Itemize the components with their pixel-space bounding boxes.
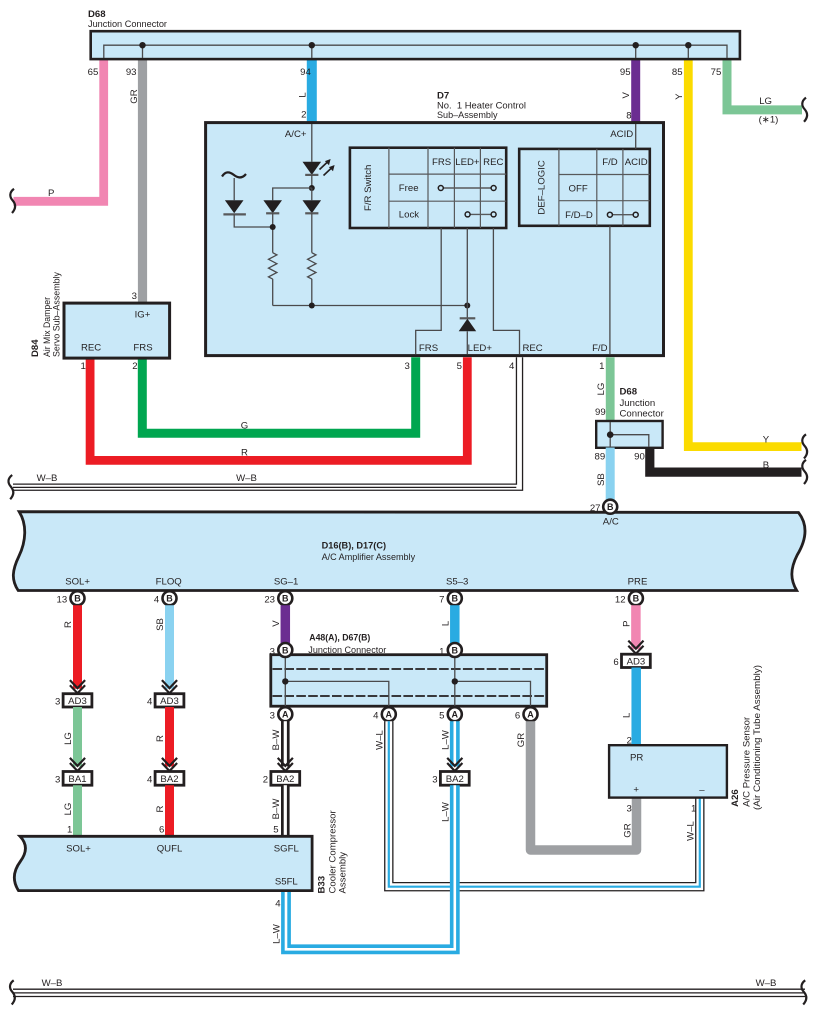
pin 1 (B) bbox=[448, 643, 462, 657]
svg-text:W–B: W–B bbox=[756, 978, 777, 989]
connector 2 BA2 bbox=[271, 772, 300, 786]
connector 27 (B) bbox=[603, 500, 617, 514]
diode D4 (left) bbox=[225, 200, 244, 213]
svg-text:4: 4 bbox=[275, 899, 281, 910]
svg-text:3: 3 bbox=[55, 775, 60, 786]
wire G (D7 pin 3 to D84 FRS) bbox=[142, 357, 415, 433]
junction dot bbox=[282, 678, 288, 684]
svg-text:85: 85 bbox=[672, 67, 683, 78]
continuation squiggle Y bbox=[802, 434, 807, 458]
A48 dashed line upper bbox=[273, 668, 546, 670]
pin 5 (A) bbox=[448, 707, 462, 721]
svg-text:REC: REC bbox=[483, 157, 503, 168]
svg-text:L–W: L–W bbox=[440, 801, 451, 822]
svg-text:5: 5 bbox=[273, 824, 278, 835]
connector 4 AD3 bbox=[155, 694, 184, 707]
svg-text:A/C Amplifier Assembly: A/C Amplifier Assembly bbox=[322, 552, 416, 563]
A48 dashed line lower bbox=[273, 695, 546, 697]
connector 3 AD3 bbox=[63, 694, 92, 707]
resistor R1 bbox=[269, 253, 277, 279]
svg-text:13: 13 bbox=[57, 595, 68, 606]
svg-text:OFF: OFF bbox=[569, 183, 588, 194]
svg-text:Sub–Assembly: Sub–Assembly bbox=[437, 110, 498, 121]
svg-text:L: L bbox=[440, 620, 451, 626]
continuation squiggle bottom right bbox=[801, 980, 806, 1004]
svg-text:B: B bbox=[607, 502, 614, 512]
svg-text:F/R Switch: F/R Switch bbox=[363, 165, 374, 211]
svg-text:F/D–D: F/D–D bbox=[565, 210, 593, 221]
svg-text:1: 1 bbox=[67, 824, 72, 835]
internal wire ACID pin 8 to table bbox=[635, 124, 637, 149]
PR pressure sensor box bbox=[609, 745, 727, 797]
svg-text:A: A bbox=[282, 710, 289, 720]
continuation squiggle LG bbox=[802, 98, 807, 122]
svg-text:AD3: AD3 bbox=[68, 696, 87, 707]
arrow to 2 BA2 bbox=[278, 758, 293, 771]
svg-text:(Air Conditioning Tube Assembl: (Air Conditioning Tube Assembly) bbox=[752, 665, 763, 810]
connector 4 BA2 bbox=[155, 772, 184, 786]
svg-text:6: 6 bbox=[159, 824, 164, 835]
wire W-B from D7 pin 4 to ground bus bbox=[13, 357, 520, 487]
wire D4 to node bbox=[234, 214, 273, 227]
svg-text:95: 95 bbox=[620, 67, 631, 78]
wire W-L (4A down right and up to PR pin 1) bbox=[389, 721, 700, 887]
svg-text:A: A bbox=[386, 710, 393, 720]
diode D3 (middle) bbox=[263, 200, 282, 213]
wire wave to diode D4 bbox=[233, 178, 235, 200]
wire GR (6A down right and up to PR pin 3) bbox=[531, 721, 637, 850]
svg-text:B: B bbox=[282, 645, 289, 655]
wire D3 to node bbox=[272, 213, 274, 252]
svg-text:27: 27 bbox=[590, 503, 601, 514]
arrow to AD3 bbox=[70, 680, 85, 693]
wire P (pin 65 to left edge) bbox=[14, 58, 104, 201]
svg-text:R: R bbox=[155, 735, 166, 742]
wire LED to node bbox=[311, 175, 313, 188]
svg-text:DEF–LOGIC: DEF–LOGIC bbox=[537, 160, 548, 214]
internal wire REC column to pin 4 bbox=[493, 228, 519, 354]
svg-text:LG: LG bbox=[63, 732, 74, 745]
svg-text:LED+: LED+ bbox=[468, 343, 493, 354]
svg-text:Connector: Connector bbox=[620, 409, 665, 420]
svg-text:SGFL: SGFL bbox=[274, 843, 300, 854]
svg-text:BA2: BA2 bbox=[446, 774, 464, 785]
svg-text:4: 4 bbox=[373, 711, 379, 722]
arrow to BA1 bbox=[70, 758, 85, 771]
svg-text:W–B: W–B bbox=[236, 473, 257, 484]
svg-text:QUFL: QUFL bbox=[157, 843, 183, 854]
svg-text:4: 4 bbox=[147, 697, 153, 708]
svg-text:S5FL: S5FL bbox=[275, 877, 299, 888]
svg-text:FRS: FRS bbox=[432, 157, 451, 168]
svg-text:6: 6 bbox=[515, 711, 520, 722]
svg-text:P: P bbox=[48, 188, 54, 199]
svg-text:SOL+: SOL+ bbox=[65, 577, 90, 588]
svg-text:P: P bbox=[621, 620, 632, 626]
svg-text:5: 5 bbox=[457, 361, 462, 372]
D68 pin stub wires bbox=[143, 45, 689, 58]
svg-text:7: 7 bbox=[439, 595, 444, 606]
internal wire FRS column to pin 3 bbox=[416, 228, 442, 354]
wave symbol bbox=[222, 172, 246, 177]
svg-text:B: B bbox=[633, 594, 640, 604]
junction dot bbox=[452, 678, 458, 684]
wire LG (BA1 to B33 SOL+) bbox=[73, 785, 82, 837]
continuation squiggle bottom left bbox=[10, 980, 15, 1004]
svg-text:D84: D84 bbox=[30, 339, 41, 357]
B33 cooler compressor assembly box bbox=[14, 836, 312, 890]
junction dot pin 93 bbox=[139, 42, 145, 48]
junction dot pin 85 bbox=[685, 42, 691, 48]
svg-text:1: 1 bbox=[439, 646, 444, 657]
svg-text:65: 65 bbox=[88, 67, 99, 78]
A/C amplifier assembly bar D16/D17 bbox=[13, 512, 805, 591]
wire P (PRE column) bbox=[631, 605, 641, 649]
svg-text:3: 3 bbox=[55, 697, 60, 708]
svg-text:–: – bbox=[699, 785, 705, 796]
internal wire F/D column to pin F/D bbox=[609, 226, 611, 354]
arrow to 6 AD3 bbox=[628, 641, 643, 654]
A48 internal wire 3B-3A/4A bbox=[285, 650, 389, 713]
svg-text:Lock: Lock bbox=[399, 209, 419, 220]
pin 7 (B) bbox=[448, 591, 462, 605]
svg-text:D68: D68 bbox=[620, 387, 638, 398]
svg-text:B–W: B–W bbox=[271, 729, 282, 751]
small D68 junction connector box bbox=[596, 421, 662, 448]
internal wire from pin 2 to LED bbox=[311, 124, 313, 162]
pin 6 (A) bbox=[524, 707, 538, 721]
svg-text:BA1: BA1 bbox=[68, 774, 86, 785]
svg-text:L: L bbox=[622, 712, 633, 718]
bottom ground bus W-B (three lines) bbox=[13, 989, 805, 996]
svg-text:B: B bbox=[166, 594, 173, 604]
DEF-LOGIC contact F/D-D row bbox=[610, 214, 636, 216]
D7 heater control box bbox=[206, 123, 664, 356]
connector 6 AD3 bbox=[622, 654, 651, 667]
svg-text:3: 3 bbox=[132, 291, 137, 302]
svg-text:AD3: AD3 bbox=[160, 696, 179, 707]
svg-text:1: 1 bbox=[81, 361, 86, 372]
svg-text:94: 94 bbox=[300, 67, 311, 78]
wire LG (AD3 to BA1) bbox=[73, 707, 82, 767]
svg-text:SB: SB bbox=[596, 473, 607, 486]
svg-text:3: 3 bbox=[626, 803, 631, 814]
wire R1 to bus bbox=[272, 279, 274, 306]
connector 3 BA2 bbox=[440, 772, 469, 786]
svg-text:Junction Connector: Junction Connector bbox=[88, 19, 168, 30]
svg-text:A/C+: A/C+ bbox=[285, 129, 307, 140]
wire V (pin 95 to D7 pin 8) bbox=[631, 58, 640, 124]
A48/D67 junction connector box bbox=[271, 655, 547, 707]
svg-text:B: B bbox=[282, 594, 289, 604]
svg-text:Y: Y bbox=[763, 435, 770, 446]
wire D2 to resistor R2 bbox=[311, 213, 313, 252]
svg-text:2: 2 bbox=[263, 775, 268, 786]
D68 internal wire bbox=[610, 422, 649, 447]
svg-text:B: B bbox=[452, 594, 459, 604]
LED D1 bbox=[303, 162, 322, 175]
svg-text:Junction Connector: Junction Connector bbox=[308, 645, 387, 656]
svg-text:GR: GR bbox=[623, 823, 634, 837]
svg-text:SOL+: SOL+ bbox=[66, 843, 91, 854]
svg-text:IG+: IG+ bbox=[135, 310, 151, 321]
wire L-W (3 BA2 down, left, up to B33 S5FL pin 4) bbox=[286, 785, 455, 949]
resistor R2 bbox=[308, 253, 316, 279]
W-B bus middle line bbox=[13, 486, 516, 488]
svg-text:+: + bbox=[633, 785, 639, 796]
svg-text:PRE: PRE bbox=[628, 577, 648, 588]
svg-text:R: R bbox=[241, 448, 248, 459]
svg-text:W–L: W–L bbox=[374, 729, 385, 749]
arrow to 3 BA2 bbox=[447, 758, 462, 771]
svg-text:LG: LG bbox=[63, 803, 74, 816]
svg-text:F/D: F/D bbox=[592, 343, 608, 354]
A48 internal wire 1B-5A/6A bbox=[455, 650, 531, 713]
arrow to BA2 bbox=[162, 758, 177, 771]
svg-text:2: 2 bbox=[132, 361, 137, 372]
svg-text:REC: REC bbox=[81, 343, 101, 354]
pin 3 (A) bbox=[278, 707, 292, 721]
svg-text:2: 2 bbox=[301, 110, 306, 121]
svg-text:89: 89 bbox=[595, 452, 606, 463]
svg-text:F/D: F/D bbox=[602, 157, 618, 168]
wire R (AD3 to BA2) bbox=[165, 707, 174, 767]
svg-text:Junction: Junction bbox=[620, 398, 656, 409]
pin 13 (B) bbox=[71, 591, 85, 605]
svg-text:A48(A), D67(B): A48(A), D67(B) bbox=[309, 632, 370, 643]
svg-text:3: 3 bbox=[404, 361, 409, 372]
svg-text:4: 4 bbox=[154, 595, 160, 606]
svg-text:23: 23 bbox=[264, 595, 275, 606]
svg-text:SG–1: SG–1 bbox=[274, 577, 299, 588]
svg-text:G: G bbox=[241, 420, 248, 431]
wire node to diode D3 branch bbox=[273, 188, 312, 200]
D84 servo box bbox=[64, 303, 170, 358]
junction node below LED bbox=[309, 185, 315, 191]
DEF-LOGIC table bbox=[519, 149, 650, 226]
svg-text:99: 99 bbox=[595, 407, 606, 418]
wire L-W (5A to 3 BA2) bbox=[450, 721, 460, 766]
svg-text:5: 5 bbox=[439, 711, 444, 722]
pin 23 (B) bbox=[278, 591, 292, 605]
svg-text:D7: D7 bbox=[437, 90, 449, 101]
svg-text:B33: B33 bbox=[317, 876, 328, 894]
svg-text:B: B bbox=[74, 594, 81, 604]
D68 internal junction dot bbox=[607, 431, 614, 438]
svg-text:W–B: W–B bbox=[42, 978, 63, 989]
D68 internal bus wire bbox=[104, 45, 727, 58]
continuation squiggle W-B left bbox=[8, 475, 13, 499]
svg-text:S5–3: S5–3 bbox=[446, 577, 468, 588]
svg-text:90: 90 bbox=[634, 452, 645, 463]
svg-text:ACID: ACID bbox=[625, 157, 648, 168]
svg-text:BA2: BA2 bbox=[276, 774, 294, 785]
svg-text:V: V bbox=[271, 620, 282, 627]
svg-text:FRS: FRS bbox=[419, 343, 438, 354]
svg-text:Servo Sub–Assembly: Servo Sub–Assembly bbox=[51, 272, 62, 357]
wire LG (D7 F/D pin 1 to D68 pin 99) bbox=[606, 357, 615, 422]
svg-text:75: 75 bbox=[711, 67, 722, 78]
svg-text:(∗1): (∗1) bbox=[759, 115, 779, 126]
svg-text:PR: PR bbox=[630, 752, 643, 763]
svg-text:R: R bbox=[155, 805, 166, 812]
svg-text:AD3: AD3 bbox=[627, 657, 646, 668]
svg-text:D16(B), D17(C): D16(B), D17(C) bbox=[322, 541, 387, 552]
wire L (S5-3 to A48 pin 1B) bbox=[450, 605, 460, 643]
wire B-W (BA2 to B33 SGFL) bbox=[281, 785, 290, 837]
wire GR (pin 93 to D84) bbox=[138, 58, 147, 304]
svg-text:FLOQ: FLOQ bbox=[156, 577, 182, 588]
diode D2 (below LED) bbox=[311, 188, 313, 200]
junction dot pin 95 bbox=[633, 42, 639, 48]
internal wire LED+ column to node bbox=[466, 228, 468, 306]
wire R2 to bus bbox=[311, 279, 313, 306]
svg-text:ACID: ACID bbox=[610, 129, 633, 140]
wire Y (pin 85 down and right to edge) bbox=[688, 58, 801, 447]
svg-text:A: A bbox=[527, 710, 534, 720]
svg-text:8: 8 bbox=[626, 110, 631, 121]
svg-text:3: 3 bbox=[270, 646, 275, 657]
svg-text:Y: Y bbox=[674, 93, 685, 100]
svg-text:FRS: FRS bbox=[133, 343, 152, 354]
svg-text:V: V bbox=[621, 92, 632, 99]
diode D5 (pointing up) bbox=[460, 317, 476, 319]
pin 4 (A) bbox=[382, 707, 396, 721]
wire V (SG-1 to A48 pin 3B) bbox=[281, 605, 291, 643]
svg-text:A26: A26 bbox=[730, 789, 741, 807]
junction dot pin 94 bbox=[309, 42, 315, 48]
junction node R2/bus bbox=[309, 303, 315, 309]
wire node to diode D5 bbox=[466, 306, 468, 319]
svg-text:L–W: L–W bbox=[440, 729, 451, 750]
F/R switch contact Lock LED+-REC bbox=[468, 213, 494, 215]
junction connector D68 bar bbox=[91, 31, 740, 59]
arrow to AD3 bbox=[162, 680, 177, 693]
wire R (D7 pin 5 to D84 REC) bbox=[90, 357, 467, 460]
wire L (AD3 to PR pin 2) bbox=[631, 668, 641, 747]
junction node bus/diode D5 bbox=[464, 303, 470, 309]
svg-text:12: 12 bbox=[615, 595, 626, 606]
svg-text:Assembly: Assembly bbox=[338, 852, 349, 894]
continuation squiggle B bbox=[802, 460, 807, 484]
F/R switch table bbox=[350, 148, 506, 228]
svg-text:BA2: BA2 bbox=[160, 774, 178, 785]
wire D5 to pin 5 bbox=[466, 331, 468, 354]
wire L (pin 94 to D7 pin 2) bbox=[307, 58, 317, 124]
svg-text:LG: LG bbox=[596, 383, 607, 396]
svg-text:B: B bbox=[763, 460, 769, 471]
bottom bus wire bbox=[273, 305, 468, 307]
svg-text:A: A bbox=[452, 710, 459, 720]
junction node bbox=[270, 224, 276, 230]
svg-text:A/C: A/C bbox=[603, 517, 619, 528]
svg-text:W–L: W–L bbox=[685, 820, 696, 840]
wire SB (FLOQ column) bbox=[165, 605, 174, 689]
svg-text:R: R bbox=[63, 621, 74, 628]
connector 3 BA1 bbox=[63, 772, 92, 786]
svg-text:GR: GR bbox=[129, 89, 140, 103]
svg-text:6: 6 bbox=[613, 657, 618, 668]
wire B (pin 90 to right edge) bbox=[650, 448, 802, 473]
svg-text:4: 4 bbox=[147, 775, 153, 786]
svg-text:LG: LG bbox=[759, 96, 772, 107]
wire LG (pin 75 to right edge, *1) bbox=[727, 58, 802, 110]
svg-text:93: 93 bbox=[126, 67, 137, 78]
svg-text:W–B: W–B bbox=[37, 473, 58, 484]
pin 4 (B) bbox=[163, 591, 177, 605]
wire B-W (3A to 2 BA2) bbox=[281, 721, 290, 766]
wire R (BA2 to B33 QUFL) bbox=[165, 785, 174, 837]
wire R (SOL+ column) bbox=[73, 605, 82, 689]
svg-text:SB: SB bbox=[155, 618, 166, 631]
svg-text:Free: Free bbox=[399, 183, 419, 194]
pin 3 (B) bbox=[278, 643, 292, 657]
F/R switch contact Free FRS-REC bbox=[441, 187, 494, 189]
svg-text:3: 3 bbox=[432, 775, 437, 786]
svg-text:LED+: LED+ bbox=[455, 157, 480, 168]
pin 12 (B) bbox=[629, 591, 643, 605]
wire SB (pin 89 to 27B) bbox=[606, 448, 615, 501]
svg-text:4: 4 bbox=[509, 361, 515, 372]
svg-text:3: 3 bbox=[270, 711, 275, 722]
svg-text:1: 1 bbox=[691, 803, 696, 814]
svg-text:REC: REC bbox=[522, 343, 542, 354]
LED arrows bbox=[320, 162, 329, 170]
svg-text:GR: GR bbox=[516, 733, 527, 747]
svg-text:B: B bbox=[452, 645, 459, 655]
continuation squiggle P bbox=[10, 189, 15, 213]
svg-text:1: 1 bbox=[599, 361, 604, 372]
svg-text:L: L bbox=[297, 92, 308, 98]
svg-text:B–W: B–W bbox=[271, 798, 282, 820]
svg-text:L–W: L–W bbox=[272, 923, 283, 944]
